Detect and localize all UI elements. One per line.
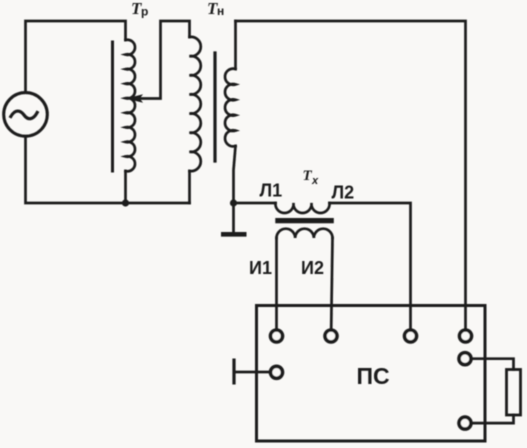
svg-text:р: р <box>141 5 148 19</box>
svg-text:И1: И1 <box>249 258 272 278</box>
svg-text:х: х <box>311 175 319 187</box>
svg-text:T: T <box>303 168 313 184</box>
svg-text:Л1: Л1 <box>260 181 283 201</box>
svg-text:ПС: ПС <box>357 363 390 389</box>
svg-text:Л2: Л2 <box>332 183 355 203</box>
svg-text:н: н <box>217 4 224 18</box>
svg-text:И2: И2 <box>301 258 324 278</box>
